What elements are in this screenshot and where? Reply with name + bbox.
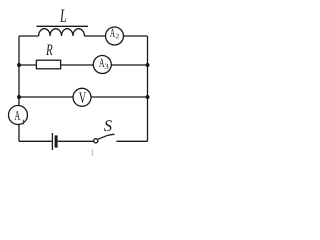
node dot right row3	[146, 95, 150, 99]
resistor R box	[36, 60, 60, 69]
node dot left row3	[17, 95, 21, 99]
ammeter A2 circle	[106, 27, 124, 45]
stray mark bottom	[91, 149, 93, 156]
node dot left row2	[17, 63, 21, 67]
wire row2 left	[19, 64, 36, 66]
label V of voltmeter	[79, 93, 86, 103]
battery BT1 short thick plate	[55, 135, 58, 147]
label subscript 2 of ammeter A2	[116, 34, 119, 39]
wire battery to switch	[58, 140, 94, 142]
voltmeter V circle	[73, 88, 91, 106]
ammeter A3 circle	[93, 56, 111, 74]
wire right rail	[147, 36, 149, 141]
wire switch to right rail	[116, 140, 147, 142]
wire top-left segment	[19, 35, 39, 37]
label R	[46, 44, 52, 55]
wire A2 to right rail	[124, 35, 148, 37]
node dot right row2	[146, 63, 150, 67]
label S	[104, 120, 112, 131]
switch S lever	[98, 134, 115, 139]
label L	[60, 10, 66, 22]
label A of ammeter A3	[99, 58, 105, 67]
switch S contact circle	[94, 139, 98, 143]
wire A3 to right rail	[111, 64, 147, 66]
wire bottom left to battery	[19, 140, 52, 142]
inductor L1 coil	[39, 29, 85, 36]
inductor L1 core bar	[37, 25, 89, 27]
label A of ammeter A1	[14, 111, 20, 120]
label A of ammeter A2	[110, 28, 115, 37]
wire V to right rail	[91, 96, 148, 98]
label subscript 3 of ammeter A3	[105, 64, 109, 69]
label subscript 1 of ammeter A1	[22, 120, 25, 125]
wire row3 left	[19, 96, 73, 98]
wire R to ammeter A3	[61, 64, 94, 66]
ammeter A1 circle	[9, 106, 28, 125]
wire coil to ammeter A2	[84, 35, 105, 37]
wire left rail upper	[18, 36, 20, 106]
wire left rail lower	[18, 124, 20, 141]
battery BT1 long plate	[51, 133, 53, 150]
